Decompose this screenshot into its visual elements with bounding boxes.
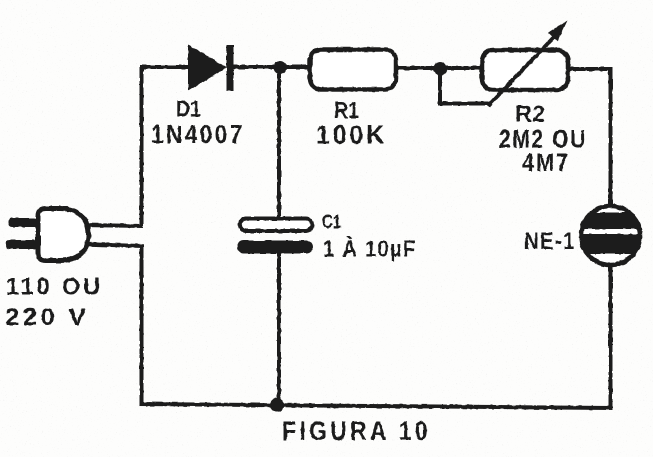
svg-text:1N4007: 1N4007	[151, 119, 245, 149]
svg-text:FIGURA 10: FIGURA 10	[282, 416, 431, 446]
svg-text:1 À 10µF: 1 À 10µF	[323, 235, 417, 262]
svg-text:D1: D1	[176, 96, 201, 122]
svg-text:110 OU: 110 OU	[6, 274, 103, 301]
svg-text:C1: C1	[322, 212, 341, 232]
svg-text:NE-1: NE-1	[524, 228, 576, 255]
svg-text:R2: R2	[515, 101, 545, 127]
svg-text:100K: 100K	[316, 120, 387, 150]
svg-text:4M7: 4M7	[522, 149, 570, 177]
svg-text:220 V: 220 V	[5, 304, 89, 331]
